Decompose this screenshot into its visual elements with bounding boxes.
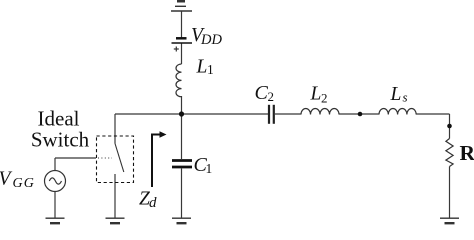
svg-text:2: 2 [268,89,275,104]
svg-text:DD: DD [200,32,222,48]
svg-text:1: 1 [206,161,213,176]
svg-text:s: s [403,90,408,105]
svg-text:C: C [255,82,269,104]
svg-text:1: 1 [207,62,214,77]
svg-text:V: V [0,169,13,190]
svg-text:L: L [310,84,322,105]
svg-text:R: R [460,141,474,165]
svg-text:d: d [149,195,157,211]
svg-text:2: 2 [321,91,328,106]
svg-text:GG: GG [13,176,36,191]
svg-text:Switch: Switch [31,127,90,151]
svg-text:L: L [390,84,402,105]
svg-text:L: L [196,57,208,78]
